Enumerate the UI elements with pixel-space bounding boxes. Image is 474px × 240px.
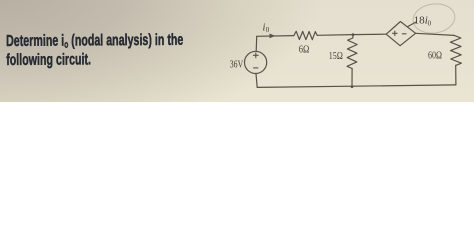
problem statement text: [6, 31, 184, 70]
leader line from diamond to 18io label: [408, 22, 416, 27]
svg-text:0: 0: [266, 26, 270, 34]
minus sign inside 36V source: [253, 67, 258, 69]
minus sign inside diamond: [402, 33, 407, 35]
wire: source bottom to bottom-left corner: [256, 74, 257, 88]
svg-text:15Ω: 15Ω: [329, 51, 343, 62]
svg-text:6Ω: 6Ω: [299, 45, 310, 56]
faint pencil circle annotation around 18io label: [411, 1, 457, 36]
wire: top-left corner down to source top: [255, 36, 258, 51]
plus sign inside diamond: [392, 31, 397, 36]
svg-text:36V: 36V: [230, 60, 244, 71]
junction node top of 15ohm: [352, 33, 355, 36]
plus sign inside 36V source: [253, 31, 407, 68]
arrowhead of i0 current arrow: [270, 34, 276, 39]
resistor R3 60ohm vertical zigzag: [450, 35, 461, 65]
svg-text:60Ω: 60Ω: [428, 50, 442, 61]
voltage source V1 36V circle: [245, 51, 267, 73]
wire: bottom rail: [257, 85, 456, 88]
wire: diamond right vertex to top-right corner: [416, 33, 455, 35]
wire: 15ohm lead to bottom rail: [351, 69, 353, 87]
resistor R2 15ohm vertical zigzag: [347, 35, 357, 69]
wire: 60ohm lead to bottom-right corner: [455, 65, 457, 85]
svg-text:18i: 18i: [414, 14, 428, 26]
resistor R1 6ohm zigzag: [294, 31, 317, 39]
wire: top rail middle segment: [317, 34, 386, 35]
dependent source U1 diamond 18io: [386, 22, 415, 46]
svg-text:0: 0: [428, 19, 432, 27]
junction node bottom of 15ohm: [351, 85, 354, 88]
wire: top rail left segment with i0 arrow shaft: [257, 35, 294, 38]
